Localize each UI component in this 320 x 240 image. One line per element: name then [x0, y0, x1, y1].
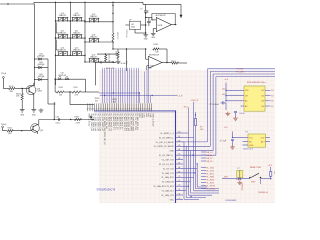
svg-text:LED21GR: LED21GR: [58, 75, 67, 77]
svg-text:OSC: OSC: [169, 199, 174, 201]
svg-text:2SA1015: 2SA1015: [73, 31, 80, 34]
svg-text:A.1: A.1: [223, 93, 226, 96]
svg-text:64: 64: [178, 149, 180, 151]
svg-text:60: 60: [178, 132, 180, 134]
svg-text:VL_LR_D1_RX1: VL_LR_D1_RX1: [159, 164, 175, 166]
svg-text:65: 65: [178, 154, 180, 156]
svg-text:VL_LSP_TX1: VL_LSP_TX1: [162, 159, 175, 161]
svg-text:2SA1015: 2SA1015: [73, 14, 80, 17]
svg-text:VL_SMP2_L_3: VL_SMP2_L_3: [160, 133, 174, 135]
svg-text:2SA1015: 2SA1015: [59, 31, 66, 34]
svg-text:RS232C: RS232C: [241, 184, 243, 192]
svg-text:VL_LR_TX2: VL_LR_TX2: [163, 168, 175, 170]
svg-text:MCP6022P: MCP6022P: [156, 15, 167, 17]
svg-text:61: 61: [178, 136, 180, 138]
svg-text:VL_INT1: VL_INT1: [206, 182, 215, 184]
svg-text:70: 70: [178, 176, 180, 178]
svg-text:72: 72: [178, 185, 180, 187]
svg-text:1N4148 x2: 1N4148 x2: [258, 192, 269, 194]
svg-text:69: 69: [178, 171, 180, 173]
svg-text:VL_LAN_RX1: VL_LAN_RX1: [161, 176, 174, 179]
svg-text:VL_LR_SMP2_L: VL_LR_SMP2_L: [159, 137, 175, 139]
svg-text:CLK: CLK: [149, 113, 151, 118]
svg-text:2SA1015: 2SA1015: [90, 55, 97, 58]
svg-text:STM32F103VCT6: STM32F103VCT6: [97, 190, 116, 192]
svg-text:C?: C?: [150, 20, 152, 22]
svg-text:DB_12: DB_12: [206, 158, 213, 160]
svg-text:2SA1015: 2SA1015: [90, 35, 97, 38]
svg-text:66: 66: [178, 158, 180, 160]
svg-text:RESET SW: RESET SW: [250, 167, 261, 169]
svg-text:VL_CS0: VL_CS0: [206, 167, 214, 169]
svg-text:C? 1uF: C? 1uF: [220, 141, 227, 143]
svg-text:C1815: C1815: [37, 91, 43, 93]
svg-text:VL_LAN_DL1: VL_LAN_DL1: [162, 189, 175, 192]
svg-text:2SA1015: 2SA1015: [73, 49, 80, 52]
svg-text:PC_RD: PC_RD: [237, 69, 244, 71]
svg-text:4040: 4040: [131, 26, 135, 28]
svg-text:CON9-DB9F: CON9-DB9F: [225, 200, 237, 202]
svg-text:TPin3: TPin3: [1, 124, 7, 126]
svg-text:VL_RST0: VL_RST0: [206, 185, 216, 187]
svg-text:74: 74: [178, 194, 180, 196]
svg-text:R157 75: R157 75: [116, 33, 118, 40]
svg-text:73: 73: [178, 189, 180, 191]
svg-text:VCC: VCC: [249, 137, 254, 139]
svg-text:D1: D1: [271, 106, 273, 108]
svg-text:DIR: DIR: [245, 90, 249, 92]
svg-text:TPin1: TPin1: [1, 73, 7, 75]
svg-text:DB_10: DB_10: [206, 152, 213, 154]
svg-text:0.01u: 0.01u: [56, 123, 61, 125]
svg-text:VL_WR1: VL_WR1: [206, 176, 215, 178]
svg-text:1SS133: 1SS133: [38, 55, 44, 57]
svg-text:VL_LR_SMPS_EN_PD13_SD_X2: VL_LR_SMPS_EN_PD13_SD_X2: [103, 113, 105, 145]
svg-text:C? 0.01uF: C? 0.01uF: [210, 104, 220, 106]
svg-text:VL_LAN_CK1: VL_LAN_CK1: [161, 194, 174, 197]
svg-text:63: 63: [178, 145, 180, 147]
svg-text:VL_CS_PD7_CS0: VL_CS_PD7_CS0: [134, 113, 136, 131]
svg-text:GND: GND: [144, 38, 149, 40]
svg-text:VL_RD_PD4_WR0: VL_RD_PD4_WR0: [129, 113, 131, 131]
svg-text:68: 68: [178, 167, 180, 169]
svg-text:MCP6022P: MCP6022P: [149, 54, 160, 56]
svg-text:VL_LAN_TX1: VL_LAN_TX1: [162, 172, 175, 175]
svg-text:VL_USB_DM: VL_USB_DM: [162, 182, 174, 184]
svg-text:J10: J10: [149, 67, 152, 69]
svg-text:VL_LSP_D1_WKUP: VL_LSP_D1_WKUP: [156, 142, 175, 144]
svg-text:1SS133: 1SS133: [38, 76, 44, 78]
svg-text:VL_INT0: VL_INT0: [206, 179, 215, 181]
svg-text:PC_WR: PC_WR: [237, 72, 245, 74]
svg-text:R212: R212: [8, 127, 13, 129]
svg-text:1SS133: 1SS133: [38, 64, 44, 66]
svg-text:DB_11: DB_11: [206, 155, 213, 157]
svg-text:+3.3V_R: +3.3V_R: [190, 100, 198, 102]
svg-text:U4?B: U4?B: [158, 25, 163, 27]
svg-text:62: 62: [178, 140, 180, 142]
svg-text:VL_CLK0: VL_CLK0: [206, 188, 215, 190]
svg-text:GND: GND: [249, 145, 254, 147]
svg-text:75: 75: [178, 198, 180, 200]
svg-text:VL_RD1: VL_RD1: [206, 173, 214, 175]
svg-text:Q29: Q29: [40, 130, 44, 132]
svg-text:VL_LR_SMP1_L: VL_LR_SMP1_L: [159, 155, 175, 157]
svg-text:71: 71: [178, 180, 180, 182]
svg-text:2SA1015: 2SA1015: [59, 14, 66, 17]
svg-text:R196: R196: [59, 87, 63, 89]
svg-text:LT1117-3.3: LT1117-3.3: [243, 149, 254, 151]
svg-text:66: 66: [150, 109, 152, 111]
svg-text:VL_LAN_BOOT1_RX1: VL_LAN_BOOT1_RX1: [153, 185, 174, 188]
svg-text:BUS BUFFER 100ns: BUS BUFFER 100ns: [247, 82, 266, 84]
svg-text:R161: R161: [154, 44, 159, 46]
svg-text:VL_WR_PD5_WR1: VL_WR_PD5_WR1: [132, 113, 134, 132]
svg-text:DB_13: DB_13: [206, 161, 213, 163]
svg-text:C43: C43: [55, 116, 58, 118]
svg-text:67: 67: [178, 163, 180, 165]
svg-text:GND: GND: [169, 151, 174, 153]
svg-text:D0: D0: [271, 101, 273, 103]
svg-text:AD[0..15]: AD[0..15]: [106, 67, 115, 70]
svg-text:2SA1015: 2SA1015: [59, 49, 66, 52]
svg-text:0.1uF: 0.1uF: [240, 113, 246, 115]
svg-text:5.0: 5.0: [271, 90, 274, 92]
svg-text:VL_LR/SD_D2_WKUP: VL_LR/SD_D2_WKUP: [154, 146, 175, 148]
svg-text:ADJ: ADJ: [261, 140, 265, 143]
svg-text:R158: R158: [115, 52, 117, 56]
svg-text:R207: R207: [75, 116, 80, 118]
svg-text:GND: GND: [151, 37, 156, 39]
svg-text:A.0: A.0: [223, 88, 226, 91]
svg-text:C155 0.1u: C155 0.1u: [125, 30, 127, 38]
svg-text:R197: R197: [74, 87, 78, 89]
svg-text:2.2M: 2.2M: [76, 123, 81, 125]
svg-text:2SA1015: 2SA1015: [90, 15, 97, 18]
svg-text:3.3: 3.3: [271, 95, 274, 97]
svg-text:VDD_3_PC10: VDD_3_PC10: [88, 113, 90, 127]
svg-text:C? 0.1uF: C? 0.1uF: [118, 63, 127, 65]
svg-text:VL_CS1: VL_CS1: [206, 170, 214, 172]
svg-text:R159 1.8K: R159 1.8K: [108, 54, 110, 63]
svg-text:C?: C?: [140, 8, 142, 10]
svg-text:VDD_3_PC10: VDD_3_PC10: [151, 113, 153, 127]
